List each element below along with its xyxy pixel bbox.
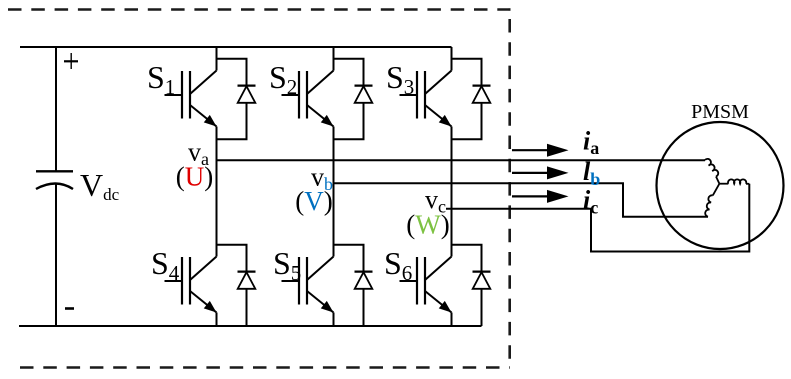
diode D4 (antiparallel with S4) (217, 245, 256, 326)
svg-text:(W): (W) (406, 210, 449, 240)
arrow ic (512, 190, 569, 203)
diode D3 (antiparallel with S3) (452, 59, 491, 140)
arrow ia (512, 144, 569, 157)
capacitor Vdc curved bottom plate (36, 184, 73, 190)
IGBT S5 (282, 257, 337, 317)
arrow ib (512, 166, 569, 179)
diode D6 (antiparallel with S6) (452, 245, 491, 326)
wire leg A middle (216, 127, 218, 257)
wire: DC- bottom rail (19, 325, 482, 327)
svg-text:PMSM: PMSM (691, 101, 749, 123)
dashed enclosure right edge (508, 19, 511, 368)
IGBT S2 (282, 71, 337, 131)
svg-text:(U): (U) (176, 162, 214, 192)
wire leg B upper (333, 47, 335, 71)
diode D2 (antiparallel with S2) (334, 59, 373, 140)
IGBT S6 (400, 257, 455, 317)
dashed enclosure top edge (8, 8, 511, 11)
node vb / wire phase b to motor (334, 183, 709, 217)
wire leg A bottom (216, 313, 218, 327)
capacitor Vdc upper lead (55, 47, 57, 171)
wire leg C middle (451, 127, 453, 257)
node vc / wire phase c to motor (446, 184, 749, 252)
wire leg C bottom (451, 313, 453, 327)
label + (DC positive) (64, 53, 78, 69)
node va / wire phase a to motor (217, 159, 706, 161)
capacitor Vdc top plate (36, 170, 73, 172)
wire coil a to star point (716, 177, 719, 184)
winding phase c coil (719, 179, 749, 183)
wire leg A upper (216, 47, 218, 71)
wire leg B middle (333, 127, 335, 257)
motor body circle (657, 122, 784, 249)
IGBT S3 (400, 71, 455, 131)
capacitor Vdc lower lead (55, 185, 57, 327)
dashed enclosure bottom edge (20, 366, 510, 369)
winding phase b coil (713, 184, 720, 196)
wire leg C upper (451, 47, 453, 71)
svg-text:(V): (V) (295, 186, 333, 216)
diode D1 (antiparallel with S1) (217, 59, 256, 140)
IGBT S1 (165, 71, 220, 131)
IGBT S4 (165, 257, 220, 317)
winding phase a coil (705, 158, 720, 177)
diode D5 (antiparallel with S5) (334, 245, 373, 326)
label - (DC negative) (65, 307, 74, 310)
wire leg B bottom (333, 313, 335, 327)
wire: DC+ top rail (20, 46, 452, 48)
